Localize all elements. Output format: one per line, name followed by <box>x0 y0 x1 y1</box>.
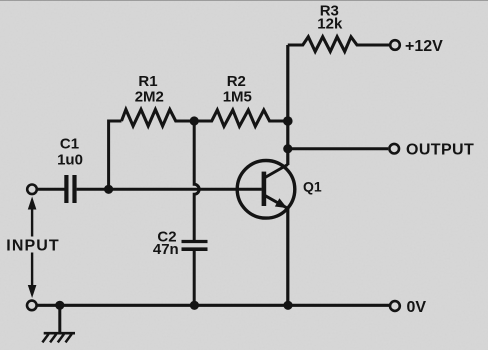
capacitor C2 <box>182 242 208 306</box>
node emitter ground junction <box>283 301 292 310</box>
svg-text:INPUT: INPUT <box>6 237 60 254</box>
svg-text:+12V: +12V <box>405 38 443 55</box>
input terminal (bottom) <box>27 301 37 311</box>
input span arrows <box>28 197 37 299</box>
terminal OUTPUT <box>389 144 399 154</box>
svg-text:R2: R2 <box>227 73 246 90</box>
svg-text:C1: C1 <box>60 136 79 153</box>
svg-text:47n: 47n <box>153 241 179 258</box>
svg-text:R1: R1 <box>138 73 157 90</box>
wire C1 to base node <box>77 188 262 191</box>
svg-text:0V: 0V <box>407 299 427 316</box>
wire junction up to R1 <box>109 121 122 189</box>
svg-text:Q1: Q1 <box>303 179 322 195</box>
node output junction <box>283 144 292 153</box>
wire emitter to ground rail <box>286 208 289 306</box>
wire output <box>288 147 388 150</box>
node R2/collector junction <box>283 116 293 126</box>
ground <box>42 305 75 342</box>
resistor R1 <box>122 110 195 127</box>
svg-text:2M2: 2M2 <box>135 89 164 106</box>
resistor R3 <box>288 37 390 52</box>
terminal +12V <box>390 40 400 50</box>
wire R1/R2 junction down with hop over base wire <box>194 121 199 240</box>
terminal 0V <box>390 301 400 311</box>
svg-text:OUTPUT: OUTPUT <box>406 142 474 159</box>
ground rail <box>37 304 390 307</box>
resistor R2 <box>194 110 288 126</box>
wire input terminal to C1 <box>37 188 64 191</box>
input terminal (top) <box>27 185 37 195</box>
node A junction C1/R1 <box>104 185 113 194</box>
transistor Q1 <box>237 161 295 219</box>
node C2 ground junction <box>190 301 199 310</box>
capacitor C1 <box>66 175 74 203</box>
node ground tap junction <box>55 301 64 310</box>
svg-text:12k: 12k <box>317 16 343 33</box>
svg-text:1u0: 1u0 <box>57 151 83 168</box>
svg-text:1M5: 1M5 <box>223 89 252 106</box>
node R1/R2 junction <box>190 116 199 125</box>
wire vertical collector net <box>286 45 289 165</box>
